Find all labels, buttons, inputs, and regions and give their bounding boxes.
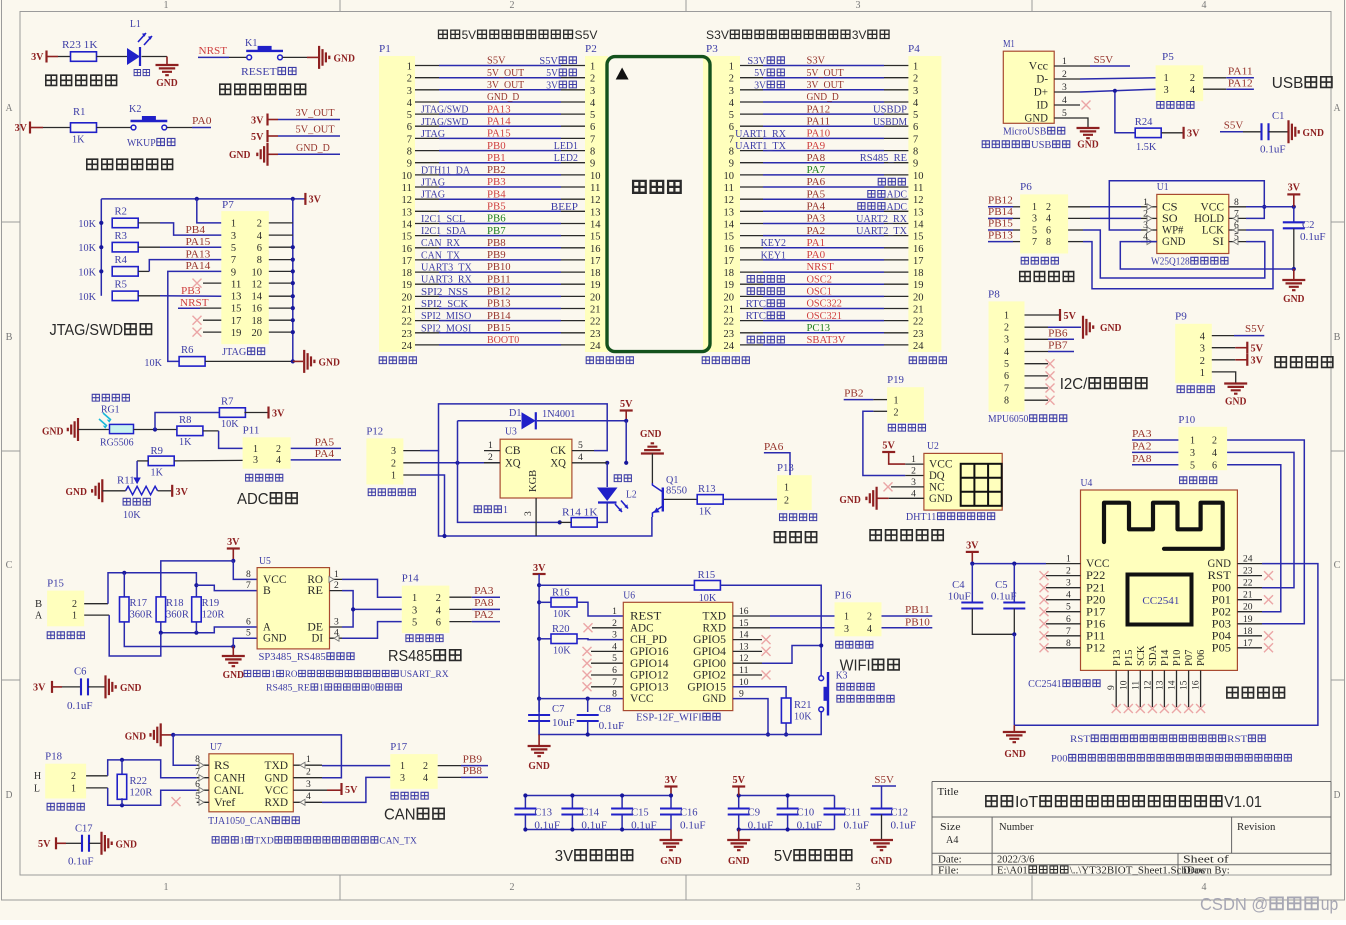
svg-text:PA2: PA2 (1132, 441, 1152, 452)
svg-text:10K: 10K (144, 358, 162, 369)
svg-text:DQ: DQ (929, 470, 945, 482)
svg-text:4: 4 (729, 98, 735, 109)
svg-text:PA3: PA3 (474, 586, 494, 597)
svg-text:4: 4 (913, 98, 919, 109)
section label relay (774, 532, 785, 543)
svg-text:19: 19 (590, 280, 601, 291)
svg-text:1: 1 (231, 219, 236, 230)
svg-text:2: 2 (1046, 202, 1051, 213)
svg-text:PB4: PB4 (487, 189, 506, 200)
resistor R19 (192, 597, 202, 622)
wire R24 to 3V (1162, 132, 1184, 134)
wire P5 pin2 PA11 (1203, 77, 1226, 79)
svg-text:11: 11 (402, 183, 413, 194)
svg-text:C17: C17 (75, 824, 93, 835)
wire 3V rail top (101, 198, 305, 200)
x-mark left pin 5 (1040, 607, 1049, 616)
svg-text:24: 24 (724, 341, 735, 352)
pin 3 stub (1141, 229, 1157, 231)
svg-text:Size: Size (940, 822, 961, 833)
header P13 (777, 475, 812, 510)
section label bluetooth (1227, 687, 1238, 698)
svg-text:5: 5 (578, 441, 583, 451)
svg-text:6: 6 (612, 666, 617, 676)
svg-text:S3V: S3V (747, 56, 766, 67)
ground GND (102, 832, 112, 855)
svg-text:P5: P5 (1162, 52, 1174, 63)
svg-text:R16: R16 (552, 588, 570, 599)
svg-text:GND: GND (871, 856, 893, 867)
svg-text:16: 16 (590, 244, 601, 255)
svg-text:1N4001: 1N4001 (542, 409, 575, 420)
label relay1 (474, 506, 481, 513)
wire P1 pin14 (415, 223, 439, 225)
svg-text:TXD: TXD (254, 836, 274, 847)
svg-text:3: 3 (856, 882, 861, 893)
svg-text:GPIO16: GPIO16 (630, 646, 669, 658)
header P2 (585, 56, 608, 352)
wire TXD to P16.1 (733, 615, 770, 617)
svg-text:PB4: PB4 (186, 225, 206, 236)
svg-text:21: 21 (724, 305, 735, 316)
svg-text:P6: P6 (1020, 182, 1032, 193)
svg-text:CC2541: CC2541 (1028, 679, 1062, 690)
svg-text:2: 2 (391, 458, 396, 469)
svg-text:C9: C9 (748, 808, 760, 819)
svg-text:8: 8 (1004, 396, 1009, 407)
wire to C1 (1243, 131, 1262, 133)
svg-text:VCC: VCC (265, 785, 289, 797)
svg-text:3: 3 (1143, 221, 1148, 231)
wire P10.4 to P00 (1227, 452, 1294, 587)
wire TXD to P17.1 (322, 765, 390, 767)
svg-text:13: 13 (402, 207, 413, 218)
ground GND (1293, 269, 1295, 279)
svg-text:PA14: PA14 (487, 117, 511, 128)
svg-text:P3: P3 (706, 44, 718, 55)
resistor R6 (179, 357, 205, 367)
header P19 (887, 387, 924, 423)
svg-text:11: 11 (1131, 681, 1141, 690)
wire R17 top (123, 573, 125, 598)
svg-text:3: 3 (590, 86, 595, 97)
svg-text:UART3_TX: UART3_TX (421, 263, 473, 274)
wire to R15 (539, 584, 694, 586)
svg-text:3V: 3V (754, 80, 767, 91)
x-mark ADC (592, 627, 623, 629)
svg-text:12: 12 (1143, 680, 1153, 690)
svg-text:3V: 3V (533, 563, 546, 574)
note TXD (212, 837, 219, 844)
wire R9 to P11.3 (174, 459, 243, 462)
svg-text:2: 2 (436, 593, 441, 604)
svg-text:0.1uF: 0.1uF (844, 821, 870, 832)
svg-text:PA11: PA11 (1228, 67, 1253, 78)
svg-text:0.1uF: 0.1uF (534, 821, 560, 832)
svg-text:SI: SI (1213, 236, 1225, 248)
svg-text:9: 9 (590, 159, 595, 170)
svg-text:4: 4 (423, 773, 428, 784)
svg-text:A: A (35, 611, 42, 622)
svg-text:File:: File: (938, 866, 959, 877)
svg-text:2: 2 (276, 444, 281, 455)
svg-text:3: 3 (524, 511, 534, 516)
svg-text:1: 1 (1190, 436, 1195, 447)
wire pot to 3V (158, 490, 172, 492)
svg-text:5: 5 (231, 243, 236, 254)
wire pin2 (269, 222, 293, 224)
svg-text:17: 17 (590, 256, 601, 267)
svg-text:Date:: Date: (938, 854, 962, 865)
svg-text:1.5K: 1.5K (1136, 142, 1157, 153)
svg-text:360R: 360R (130, 610, 153, 621)
svg-text:8: 8 (913, 147, 918, 158)
power net 3V (267, 407, 269, 419)
svg-text:5: 5 (1032, 225, 1037, 236)
svg-text:13: 13 (1155, 680, 1165, 690)
wire to R7 (155, 413, 220, 430)
capacitor C7 (538, 699, 540, 712)
x-mark left pin 8 (1040, 643, 1049, 652)
svg-text:R23 1K: R23 1K (62, 40, 98, 51)
svg-text:1: 1 (1032, 202, 1037, 213)
wire P14.4 PA8 (449, 608, 471, 610)
svg-text:RS485_RE: RS485_RE (860, 153, 907, 164)
power net 3V (304, 193, 306, 205)
svg-text:B: B (1334, 332, 1341, 343)
svg-text:PB12: PB12 (487, 287, 511, 298)
svg-text:13: 13 (724, 207, 735, 218)
svg-text:WIFI: WIFI (840, 658, 871, 675)
svg-text:1: 1 (71, 783, 76, 794)
svg-text:Revision: Revision (1237, 822, 1276, 833)
svg-text:OSC1: OSC1 (807, 287, 832, 298)
wire GND to Q1 collector (651, 454, 653, 484)
capacitor C8 (587, 699, 589, 712)
svg-text:1: 1 (590, 62, 595, 73)
svg-text:Q1: Q1 (666, 475, 678, 486)
svg-text:1: 1 (1062, 57, 1067, 67)
svg-text:PB8: PB8 (487, 238, 506, 249)
label photoresistor (92, 394, 99, 401)
header P8 (989, 301, 1025, 411)
svg-text:10K: 10K (553, 609, 571, 620)
svg-text:Number: Number (999, 822, 1034, 833)
svg-text:U6: U6 (623, 591, 635, 602)
svg-text:0.1uF: 0.1uF (1260, 145, 1286, 156)
svg-text:1: 1 (271, 670, 276, 680)
svg-text:PA9: PA9 (807, 141, 826, 152)
left pin 4 (1046, 599, 1081, 601)
svg-text:3V_OUT: 3V_OUT (487, 80, 524, 91)
svg-text:RO: RO (285, 670, 298, 680)
x-mark pin5 (1025, 363, 1049, 365)
svg-text:PB13: PB13 (487, 299, 511, 310)
svg-text:20: 20 (402, 292, 413, 303)
svg-text:P10: P10 (1172, 650, 1183, 666)
svg-text:RXD: RXD (703, 622, 727, 634)
svg-text:5V: 5V (251, 132, 264, 143)
left pin 1 (1046, 563, 1081, 565)
svg-text:6: 6 (1004, 371, 1009, 382)
svg-text:21: 21 (402, 305, 413, 316)
svg-text:20: 20 (913, 292, 924, 303)
svg-text:4: 4 (257, 231, 263, 242)
ground GND (866, 487, 876, 510)
connector M1 MicroUSB (1003, 51, 1054, 123)
wire (198, 56, 229, 58)
ground GND (670, 830, 672, 840)
svg-text:P10: P10 (1178, 415, 1195, 426)
x-mark bottom pin 16 (1196, 704, 1205, 713)
svg-text:4: 4 (436, 605, 442, 616)
svg-text:2: 2 (612, 619, 617, 629)
ground GND (870, 840, 893, 850)
svg-text:3V: 3V (852, 28, 867, 42)
svg-text:S5V: S5V (874, 775, 894, 786)
wire DI to P14.5 (342, 622, 402, 639)
svg-text:2: 2 (1200, 356, 1205, 367)
svg-text:BOOT0: BOOT0 (487, 335, 519, 346)
svg-text:UART2_TX: UART2_TX (856, 226, 908, 237)
svg-text:R15: R15 (698, 570, 716, 581)
pin stubs U3 (484, 451, 607, 536)
svg-text:2: 2 (306, 768, 311, 778)
capacitor C13 (524, 796, 526, 809)
svg-text:10K: 10K (78, 292, 96, 303)
svg-text:JTAG: JTAG (421, 178, 445, 189)
label P16 function (836, 641, 843, 648)
wire P1 pin3 (415, 89, 439, 91)
wire P3 pin16 (740, 247, 763, 249)
svg-text:5V: 5V (754, 68, 767, 79)
svg-text:P00: P00 (1212, 582, 1232, 594)
pin 2 (1054, 78, 1080, 80)
3V filter rails (525, 795, 671, 797)
svg-text:CAN_TX: CAN_TX (421, 250, 461, 261)
svg-text:K2: K2 (129, 104, 141, 115)
svg-text:11: 11 (724, 183, 735, 194)
svg-text:15: 15 (590, 232, 601, 243)
svg-text:1K: 1K (151, 468, 164, 479)
svg-text:P04: P04 (1212, 630, 1232, 642)
svg-text:13: 13 (231, 292, 242, 303)
svg-text:4: 4 (578, 453, 583, 463)
svg-text:GND_D: GND_D (296, 143, 330, 154)
resistor R23 (71, 52, 97, 62)
svg-text:DTH11_DA: DTH11_DA (421, 165, 471, 176)
svg-text:1: 1 (1143, 198, 1148, 208)
svg-text:4: 4 (276, 455, 281, 466)
label 备用电池 (747, 336, 754, 343)
left pin 2 (1046, 575, 1081, 577)
svg-text:4: 4 (1004, 347, 1009, 358)
svg-text:6: 6 (1046, 225, 1051, 236)
wire P1 pin11 (415, 186, 439, 188)
wire P3 pin3 (740, 89, 763, 91)
svg-text:1: 1 (319, 684, 324, 694)
svg-text:NRST: NRST (807, 262, 834, 273)
svg-text:CB: CB (505, 445, 521, 457)
svg-text:GND_D: GND_D (807, 92, 839, 103)
svg-text:10: 10 (724, 171, 735, 182)
svg-text:GND: GND (334, 54, 356, 65)
svg-text:3V: 3V (966, 541, 979, 552)
svg-text:ID: ID (1037, 100, 1049, 112)
svg-text:3: 3 (334, 618, 339, 628)
svg-text:1K: 1K (72, 135, 85, 146)
svg-text:1: 1 (503, 505, 508, 516)
wire R20 to CH_PD (577, 638, 623, 641)
svg-text:22: 22 (913, 317, 924, 328)
wire bottom rail (439, 451, 652, 536)
header P14 (402, 586, 450, 633)
wire P1 pin16 (415, 247, 439, 249)
svg-text:C7: C7 (552, 704, 564, 715)
svg-text:up: up (1321, 894, 1339, 914)
transistor Q1 8550 (662, 488, 664, 512)
resistor R20 (551, 634, 577, 644)
svg-text:1: 1 (240, 836, 245, 847)
power net 3V (1246, 354, 1248, 366)
svg-text:0.1uF: 0.1uF (68, 857, 94, 868)
wire P3 pin21 (740, 308, 763, 310)
svg-text:3: 3 (231, 231, 236, 242)
svg-text:20: 20 (590, 292, 601, 303)
svg-text:5: 5 (407, 110, 412, 121)
svg-text:PA4: PA4 (807, 202, 826, 213)
svg-text:P14: P14 (402, 574, 419, 585)
junction (195, 197, 199, 201)
svg-text:UART3_RX: UART3_RX (421, 275, 473, 286)
label P17 function (391, 792, 398, 799)
svg-text:1: 1 (334, 570, 339, 580)
svg-text:GND: GND (528, 761, 550, 772)
svg-text:JTAG: JTAG (421, 190, 445, 201)
svg-text:6: 6 (246, 618, 251, 628)
wire GND to pot (102, 490, 125, 492)
svg-text:P07: P07 (1184, 650, 1195, 666)
right pin 21 (1237, 599, 1262, 601)
IC U1 W25Q128 (1157, 194, 1229, 253)
label P2 function (586, 357, 593, 364)
wire GND to RS pin (173, 735, 197, 765)
capacitor C1 (1262, 123, 1269, 140)
svg-text:L: L (34, 783, 40, 794)
wire pin12 (269, 282, 293, 284)
wire P3 pin18 (740, 271, 763, 273)
wire P12.3 loop to CK (403, 450, 420, 452)
svg-text:10: 10 (402, 171, 413, 182)
svg-text:5: 5 (195, 792, 200, 802)
svg-text:PB14: PB14 (487, 311, 511, 322)
svg-text:1: 1 (400, 761, 405, 772)
svg-text:7: 7 (195, 768, 200, 778)
svg-text:PB6: PB6 (487, 214, 506, 225)
svg-text:1: 1 (729, 62, 734, 73)
svg-text:PB8: PB8 (463, 766, 483, 777)
svg-text:1K: 1K (179, 437, 192, 448)
svg-text:GPIO13: GPIO13 (630, 681, 669, 693)
svg-text:P1: P1 (379, 44, 391, 55)
svg-text:ADC: ADC (887, 190, 908, 201)
wire P14.6 PA2 (449, 621, 471, 623)
svg-text:U3: U3 (505, 427, 517, 438)
svg-text:R14 1K: R14 1K (562, 508, 598, 519)
header P1 (379, 56, 415, 352)
svg-text:20: 20 (1243, 603, 1253, 613)
svg-text:5V_OUT: 5V_OUT (807, 68, 844, 79)
x-mark pin11 (193, 279, 202, 288)
svg-text:8: 8 (1066, 639, 1071, 649)
svg-text:1: 1 (488, 441, 493, 451)
wire to RG1 (78, 429, 110, 431)
svg-text:7: 7 (729, 134, 734, 145)
svg-text:3V: 3V (15, 123, 28, 134)
wire GND rail (161, 734, 174, 736)
label P12 function (368, 489, 375, 496)
svg-text:CSDN @: CSDN @ (1200, 894, 1268, 914)
capacitor C14 (571, 796, 573, 809)
svg-text:WKUP: WKUP (127, 138, 156, 149)
svg-text:R20: R20 (552, 624, 570, 635)
svg-text:C: C (1334, 560, 1341, 571)
svg-text:1: 1 (1066, 555, 1071, 565)
svg-text:5: 5 (412, 618, 417, 629)
svg-text:CANH: CANH (214, 772, 245, 784)
wire P1 pin6 (415, 125, 439, 127)
wire P3 pin12 (740, 198, 763, 200)
svg-text:6: 6 (407, 122, 412, 133)
svg-text:DE: DE (307, 622, 323, 634)
svg-text:KEY1: KEY1 (761, 250, 786, 261)
svg-text:5: 5 (1190, 460, 1195, 471)
diode D1 1N4001 (458, 420, 522, 422)
pin 8 stub (1229, 206, 1246, 208)
svg-text:23: 23 (724, 329, 735, 340)
resistor R3 (112, 242, 138, 252)
svg-text:BEEP: BEEP (551, 202, 579, 213)
svg-text:24: 24 (590, 341, 601, 352)
svg-text:V1.01: V1.01 (1224, 794, 1262, 811)
svg-text:1: 1 (844, 612, 849, 623)
svg-text:GND: GND (1303, 128, 1325, 139)
resistor R1 (71, 123, 97, 133)
svg-text:GND_D: GND_D (487, 92, 519, 103)
ground GND (232, 647, 234, 656)
svg-text:ADC: ADC (630, 622, 654, 634)
svg-text:8: 8 (729, 147, 734, 158)
wire RO to P14.1 (342, 579, 402, 597)
svg-text:1: 1 (894, 396, 899, 407)
U7 right stubs (293, 765, 327, 802)
section label (46, 75, 57, 85)
wire R3 to pin5 (138, 246, 160, 248)
svg-text:HOLD: HOLD (1194, 213, 1224, 225)
svg-text:R2: R2 (115, 207, 127, 218)
svg-text:D1: D1 (509, 408, 521, 419)
left pin 5 (1046, 611, 1081, 613)
power net 3V (1182, 127, 1184, 139)
wire R7 to 3V (244, 412, 267, 414)
svg-text:1: 1 (253, 444, 258, 455)
svg-text:9: 9 (1107, 685, 1117, 690)
wire P1 pin13 (415, 210, 439, 212)
wire P12.1 (403, 474, 420, 476)
svg-text:JTAG: JTAG (222, 347, 246, 358)
svg-text:3V: 3V (31, 52, 44, 63)
svg-text:2: 2 (784, 496, 789, 507)
